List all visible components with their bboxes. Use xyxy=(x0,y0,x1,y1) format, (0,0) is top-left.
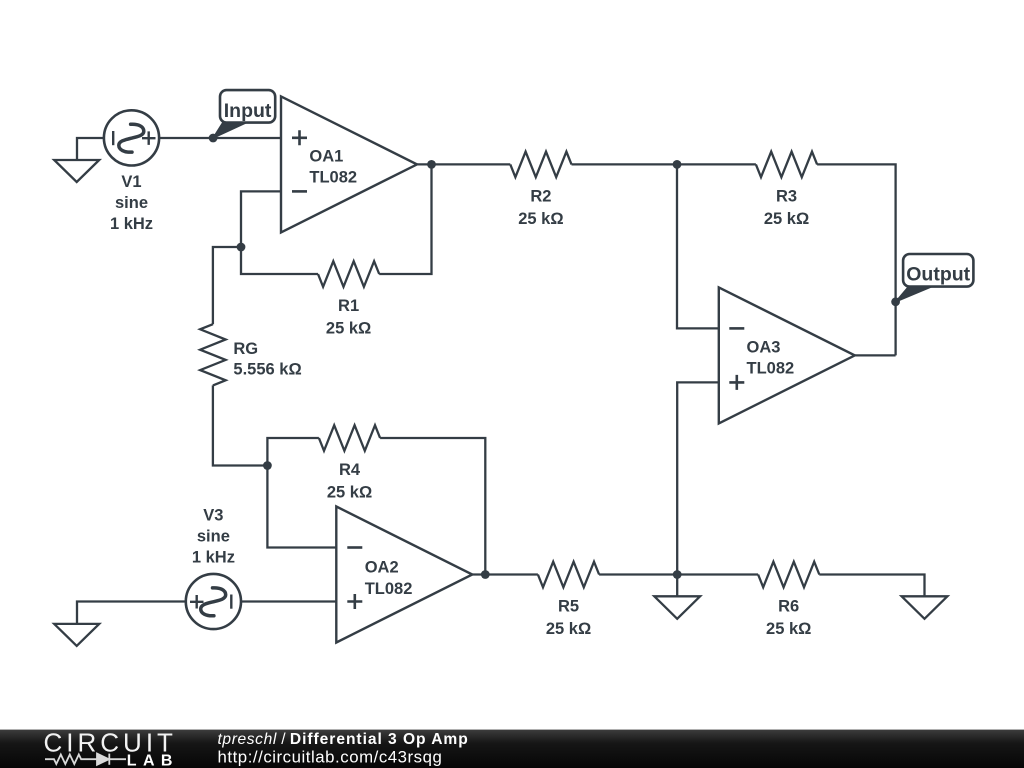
resistor R3 xyxy=(756,152,817,178)
svg-text:1 kHz: 1 kHz xyxy=(192,549,235,567)
wire OA1 - input to feedback node xyxy=(241,191,281,247)
label R3 xyxy=(764,187,809,228)
node RG R4 junction xyxy=(263,461,272,470)
op-amp OA1 xyxy=(281,96,417,232)
resistor RG xyxy=(200,324,226,385)
wire OA2 output to R5 xyxy=(472,573,538,575)
wire OA3 output to right rail xyxy=(855,354,896,356)
wire OA3 + input down to junction xyxy=(677,382,719,574)
wire R1 right to OA1 output node xyxy=(379,164,431,274)
footer bar xyxy=(0,730,1024,768)
svg-text:25 kΩ: 25 kΩ xyxy=(546,620,591,638)
svg-text:V3: V3 xyxy=(203,507,223,525)
resistor R1 xyxy=(318,261,379,287)
label V1 xyxy=(110,173,153,233)
wire V3 left to ground stub xyxy=(77,602,186,624)
wire node to OA3 - input xyxy=(677,164,719,328)
resistor R5 xyxy=(538,562,599,588)
node OA1 output xyxy=(427,160,436,169)
wire RG bottom to node xyxy=(213,385,268,465)
wire R6 right down to ground xyxy=(819,575,924,597)
svg-text:R3: R3 xyxy=(776,187,797,205)
label V3 xyxy=(192,507,235,567)
svg-text:5.556 kΩ: 5.556 kΩ xyxy=(233,361,301,379)
svg-text:TL082: TL082 xyxy=(747,360,795,378)
wire junction down to ground xyxy=(676,575,678,597)
svg-text:25 kΩ: 25 kΩ xyxy=(518,210,563,228)
node feedback junction xyxy=(237,243,246,252)
op-amp OA2 xyxy=(336,507,472,643)
resistor R2 xyxy=(510,152,571,178)
resistor R4 xyxy=(319,425,380,451)
resistor R6 xyxy=(758,562,819,588)
voltage source V3 xyxy=(186,574,241,629)
svg-text:OA2: OA2 xyxy=(365,559,399,577)
wire R2 to R3 through node xyxy=(572,163,756,165)
CircuitLab logo resistor-diode glyph xyxy=(45,754,126,765)
wire R5 to R6 through junction xyxy=(599,573,758,575)
svg-text:R1: R1 xyxy=(338,297,359,315)
svg-text:25 kΩ: 25 kΩ xyxy=(327,484,372,502)
ground (under R5 R6 junction) xyxy=(654,596,700,619)
svg-text:Input: Input xyxy=(224,100,272,122)
svg-text:1 kHz: 1 kHz xyxy=(110,215,153,233)
svg-text:sine: sine xyxy=(197,528,230,546)
ground (far right, under R6) xyxy=(902,596,948,619)
wire R3 right down to OA3 output xyxy=(817,164,896,355)
svg-text:OA3: OA3 xyxy=(747,339,781,357)
node OA2 output xyxy=(481,570,490,579)
wire feedback node down to R1 row xyxy=(241,247,318,274)
ground (top-left, under V1 minus) xyxy=(54,160,99,182)
svg-text:25 kΩ: 25 kΩ xyxy=(764,210,809,228)
wire node up to R4 row xyxy=(267,438,319,466)
svg-text:R4: R4 xyxy=(339,461,361,479)
svg-text:25 kΩ: 25 kΩ xyxy=(766,620,811,638)
label RG xyxy=(233,340,301,379)
wire node to OA2 - input xyxy=(267,466,336,548)
svg-text:TL082: TL082 xyxy=(365,580,413,598)
svg-text:OA1: OA1 xyxy=(309,148,343,166)
svg-text:RG: RG xyxy=(233,340,258,358)
label R5 xyxy=(546,598,591,639)
svg-text:TL082: TL082 xyxy=(309,169,357,187)
wire V3 to OA2 + input xyxy=(241,600,336,602)
net flag Input xyxy=(213,90,275,138)
op-amp OA3 xyxy=(719,287,855,423)
node input xyxy=(209,134,218,143)
svg-text:sine: sine xyxy=(115,194,148,212)
label R4 xyxy=(327,461,372,502)
svg-text:http://circuitlab.com/c43rsqg: http://circuitlab.com/c43rsqg xyxy=(218,747,443,766)
voltage source V1 xyxy=(104,110,159,165)
svg-text:R6: R6 xyxy=(778,598,799,616)
svg-text:LAB: LAB xyxy=(127,752,179,768)
svg-text:R5: R5 xyxy=(558,598,579,616)
ground (bottom-left, under V3) xyxy=(54,624,99,646)
wire feedback node to RG xyxy=(213,247,241,324)
label R2 xyxy=(518,187,563,228)
node R5 R6 ground junction xyxy=(673,570,682,579)
svg-text:V1: V1 xyxy=(121,173,141,191)
wire V1 to OA1 + input xyxy=(159,137,281,139)
net flag Output xyxy=(896,254,974,302)
label R6 xyxy=(766,598,811,639)
svg-text:25 kΩ: 25 kΩ xyxy=(326,320,371,338)
svg-text:R2: R2 xyxy=(530,187,551,205)
svg-text:tpreschl / Differential 3 Op A: tpreschl / Differential 3 Op Amp xyxy=(218,731,469,748)
label R1 xyxy=(326,297,371,338)
wire V1 left to ground stub xyxy=(77,138,104,160)
node output flag xyxy=(891,297,900,306)
node R2 R3 junction xyxy=(673,160,682,169)
wire OA1 output to R2 xyxy=(417,163,510,165)
svg-text:Output: Output xyxy=(906,263,970,285)
wire R4 right down to OA2 output node xyxy=(380,438,485,575)
